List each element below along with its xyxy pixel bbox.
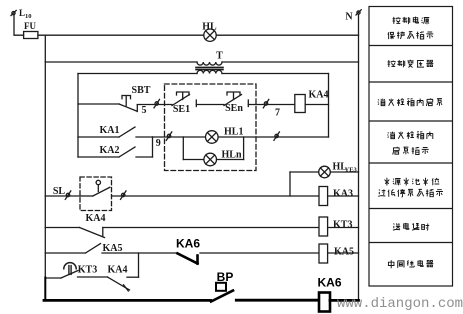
contact KA6 [178,253,198,263]
svg-text:5: 5 [142,105,147,116]
svg-text:KA4: KA4 [108,265,128,276]
timer contact KT3 [61,271,78,279]
svg-text:SBT: SBT [132,85,151,96]
terminal L10 [12,12,15,15]
pressure switch BP [211,291,233,302]
svg-text:KT3: KT3 [333,220,352,231]
wire KA4 row right [103,227,319,229]
relay coil KA6 [319,293,330,312]
wire KA4 row left [45,227,79,229]
wire top line L [38,34,359,36]
svg-text:SEn: SEn [225,103,243,114]
wire KA5 row mid [102,252,178,254]
lamp HL YE3 [319,166,331,178]
svg-text:9: 9 [156,138,161,149]
wire lamp to N [330,171,358,173]
contact KA4 [80,228,105,238]
wire KA4 to right edge [305,104,328,106]
wire HL1 right [218,136,328,138]
timer coil KT3 [319,217,328,236]
wire KA1 row right [136,136,153,138]
right column box [369,7,453,287]
wire row1 right [248,104,294,106]
pushbutton SE1 [172,95,190,106]
svg-text:HLn: HLn [222,150,242,161]
wire HLn right [217,159,244,161]
relay coil KA5 [319,244,328,263]
node 9 [167,134,170,137]
wire secondary line [78,73,197,75]
node lamp row exit [275,134,278,137]
wire SL row left [45,195,80,197]
lamp HL1 [206,131,219,144]
svg-text:SL: SL [53,186,66,197]
svg-text:KA2: KA2 [100,145,120,156]
wire from L10 down to fuse [14,15,24,35]
wire KT3 row mid [78,276,108,278]
svg-text:KA4: KA4 [86,213,106,224]
contact KA2 [119,147,135,157]
node 5 [155,102,158,105]
svg-text:www.diangon.com: www.diangon.com [337,296,463,312]
chinese cell texts [378,17,443,269]
wire KT3-KA5 link [138,253,140,277]
wire bottom row bold right [236,299,319,302]
wire KA5 row left [45,252,85,254]
pushbutton SBT [119,104,137,111]
wire SL row right [112,195,320,197]
wire N bus [358,14,360,300]
svg-text:KA1: KA1 [100,125,120,136]
svg-text:10: 10 [25,13,32,20]
contact KA4 nc [108,277,130,290]
svg-text:T: T [216,51,223,62]
svg-text:SE1: SE1 [173,104,190,115]
wire KA5 row right [200,252,319,254]
svg-text:KA3: KA3 [333,189,353,200]
svg-text:KA5: KA5 [103,243,123,254]
svg-text:HL1: HL1 [224,127,243,138]
lamp HL [204,29,216,41]
fuse FU [24,32,38,39]
relay coil KA4 U1 [295,95,305,113]
svg-text:YE3: YE3 [345,167,358,174]
wire to lamps [153,136,206,138]
wire bottom row bold left [44,299,211,302]
bold elements [44,253,359,311]
svg-text:KT3: KT3 [78,265,97,276]
svg-text:HL: HL [202,22,217,33]
relay coil KA3 [319,187,328,206]
contact KA5 [86,244,101,254]
wire left bus [44,35,46,300]
wire row1 SE1-SEn [196,104,224,106]
node SL left [66,193,69,196]
svg-text:KA6: KA6 [317,276,341,290]
wire primary line [45,61,197,63]
wire KA2 row right [136,156,153,158]
svg-text:KA6: KA6 [176,237,200,251]
lamp HLn [204,153,217,166]
wire KA2 row left [78,156,119,158]
terminal N [357,11,360,14]
contact KA1 [119,127,135,137]
wire HLn branch [182,137,184,160]
wire row1 mid [137,104,172,106]
transformer T [197,62,222,65]
svg-text:FU: FU [24,21,36,31]
wire row1 left [78,103,119,105]
dashed group SE [165,84,257,171]
level switch SL dashed [80,177,112,211]
svg-text:N: N [345,12,353,23]
wire box left edge [77,74,79,158]
wire KT3 row left [45,277,61,279]
svg-text:KA4: KA4 [309,90,329,101]
node 7 [264,102,267,105]
node SL right [122,193,125,196]
pushbutton SEn [224,95,242,106]
svg-text:7: 7 [275,108,280,119]
wire KA1 row left [78,136,119,138]
svg-text:BP: BP [217,270,234,284]
wire junction KA1/KA2 [152,137,154,157]
wire box right edge [328,74,330,138]
svg-text:KA5: KA5 [334,247,354,258]
wire HLyE3 branch [289,172,291,196]
